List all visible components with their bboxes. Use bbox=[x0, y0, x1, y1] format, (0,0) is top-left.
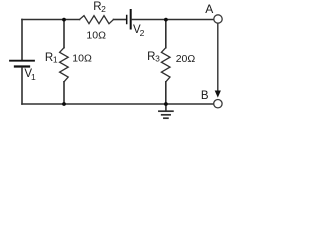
svg-text:20Ω: 20Ω bbox=[176, 53, 196, 65]
terminal B circle bbox=[214, 100, 222, 108]
node junction bottom R3 bbox=[164, 102, 168, 106]
node junction bottom R1 bbox=[62, 102, 66, 106]
wire R3 bottom lead bbox=[165, 82, 167, 104]
resistor R3 bbox=[161, 48, 170, 82]
svg-text:B: B bbox=[201, 90, 209, 102]
svg-text:2: 2 bbox=[101, 4, 106, 14]
terminal A circle bbox=[214, 15, 222, 23]
svg-text:1: 1 bbox=[53, 54, 58, 64]
wire R1 bottom lead bbox=[63, 82, 65, 104]
node junction top R1 bbox=[62, 18, 66, 22]
resistor R1 bbox=[60, 48, 69, 82]
battery V2 long plate bbox=[130, 10, 132, 29]
svg-text:10Ω: 10Ω bbox=[72, 53, 92, 65]
resistor R2 bbox=[80, 16, 114, 24]
wire arrow A to B bbox=[217, 24, 219, 91]
wire V2 to node A bbox=[132, 19, 214, 21]
wire R1 top lead bbox=[63, 20, 65, 48]
battery V1 short plate bbox=[15, 65, 29, 67]
battery V2 short plate bbox=[126, 16, 128, 24]
svg-text:2: 2 bbox=[140, 28, 145, 38]
wire top-left horizontal bbox=[22, 19, 80, 21]
wire left vertical upper bbox=[21, 20, 23, 60]
arrowhead down bbox=[215, 91, 221, 98]
wire R3 top lead bbox=[165, 20, 167, 48]
wire bottom horizontal bbox=[22, 103, 214, 105]
svg-text:3: 3 bbox=[155, 54, 160, 64]
svg-text:A: A bbox=[205, 2, 213, 16]
ground bbox=[165, 104, 167, 111]
svg-text:10Ω: 10Ω bbox=[86, 30, 106, 42]
wire left vertical lower bbox=[21, 68, 23, 105]
svg-text:1: 1 bbox=[31, 72, 36, 82]
node junction top R3 bbox=[164, 18, 168, 22]
battery V1 long plate bbox=[10, 60, 34, 62]
wire R2 to V2 bbox=[114, 19, 127, 21]
